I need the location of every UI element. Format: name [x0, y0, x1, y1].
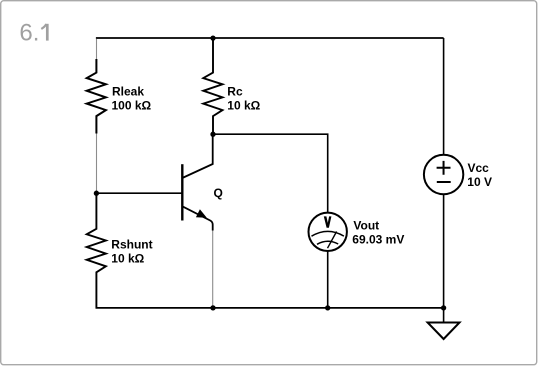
svg-text:6.: 6.	[19, 20, 39, 47]
svg-text:Vcc: Vcc	[468, 161, 490, 175]
svg-text:10 kΩ: 10 kΩ	[111, 252, 144, 266]
svg-text:10 V: 10 V	[467, 175, 492, 189]
svg-text:10 kΩ: 10 kΩ	[227, 99, 260, 113]
svg-text:100 kΩ: 100 kΩ	[112, 99, 152, 113]
svg-text:Vout: Vout	[353, 218, 379, 232]
svg-text:Rshunt: Rshunt	[111, 238, 152, 252]
svg-text:Rc: Rc	[227, 85, 243, 99]
svg-text:69.03 mV: 69.03 mV	[352, 232, 404, 246]
svg-text:Rleak: Rleak	[112, 85, 144, 99]
svg-text:Q: Q	[214, 186, 223, 200]
